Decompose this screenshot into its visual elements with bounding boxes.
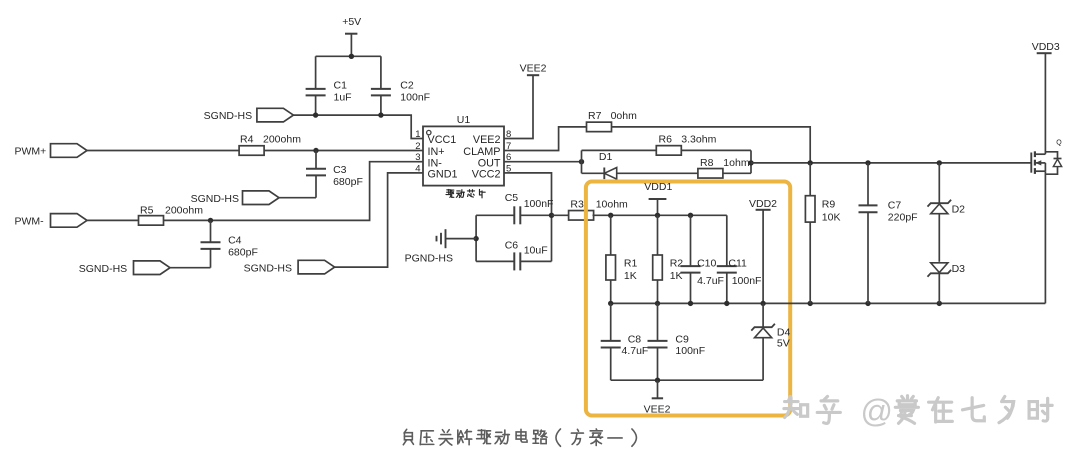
node rail/R1 bbox=[608, 213, 613, 218]
wire SGND to C4 bbox=[170, 267, 211, 269]
resistor R4 bbox=[239, 134, 301, 156]
node rail2/R9 bbox=[808, 301, 813, 306]
svg-text:R4: R4 bbox=[240, 134, 254, 146]
wire OUT bbox=[510, 161, 582, 163]
svg-text:4.7uF: 4.7uF bbox=[697, 275, 724, 287]
capacitor C10 bbox=[681, 215, 724, 303]
node PWM-/C4 junction bbox=[208, 218, 213, 223]
capacitor C6 bbox=[476, 239, 551, 270]
wire PWM+ to R4 bbox=[87, 150, 239, 152]
svg-text:C2: C2 bbox=[400, 79, 414, 91]
node D1 loop right exit bbox=[748, 160, 753, 165]
node C1 bottom bbox=[313, 112, 318, 117]
capacitor C11 bbox=[717, 215, 762, 303]
svg-text:100nF: 100nF bbox=[675, 345, 705, 357]
resistor R7 bbox=[587, 110, 638, 132]
resistor R5 bbox=[139, 205, 204, 226]
node PGND junction bbox=[473, 236, 478, 241]
node gate/R9 bbox=[808, 160, 813, 165]
node +5V rail junction bbox=[349, 54, 354, 59]
svg-text:100nF: 100nF bbox=[732, 275, 762, 287]
svg-text:0ohm: 0ohm bbox=[611, 110, 638, 122]
svg-text:SGND-HS: SGND-HS bbox=[204, 110, 252, 122]
svg-text:VCC2: VCC2 bbox=[472, 169, 501, 181]
svg-text:C1: C1 bbox=[334, 79, 348, 91]
svg-text:VEE2: VEE2 bbox=[473, 134, 501, 146]
resistor R6 bbox=[656, 133, 716, 155]
svg-text:R2: R2 bbox=[670, 258, 684, 270]
svg-text:4.7uF: 4.7uF bbox=[622, 345, 649, 357]
wire C5 to R3 bbox=[552, 214, 570, 216]
svg-text:200ohm: 200ohm bbox=[165, 205, 203, 217]
node rail2/R1 bbox=[608, 301, 613, 306]
svg-text:IN+: IN+ bbox=[428, 146, 445, 158]
connector SGND-HS mid bbox=[191, 191, 279, 205]
wire CLAMP to R7 bbox=[510, 127, 587, 151]
transistor Q MOSFET bbox=[1031, 139, 1062, 303]
wire PWM- to R5 bbox=[87, 219, 139, 221]
ground PGND-HS bbox=[405, 229, 477, 264]
node R4/C3 junction bbox=[313, 148, 318, 153]
svg-text:3.3ohm: 3.3ohm bbox=[681, 133, 716, 145]
node rail2/C11 bbox=[724, 301, 729, 306]
svg-text:D2: D2 bbox=[952, 203, 966, 215]
svg-text:R9: R9 bbox=[822, 199, 836, 211]
node rail/VDD1 bbox=[655, 213, 660, 218]
connector PWM+ bbox=[15, 144, 88, 158]
power +5V symbol bbox=[342, 16, 361, 56]
wire D1 loop left bbox=[581, 150, 583, 173]
svg-text:VDD1: VDD1 bbox=[644, 181, 672, 193]
svg-text:1uF: 1uF bbox=[334, 92, 352, 104]
svg-text:PWM-: PWM- bbox=[15, 216, 45, 228]
svg-text:680pF: 680pF bbox=[333, 176, 363, 188]
capacitor C4 bbox=[201, 220, 258, 267]
svg-text:R7: R7 bbox=[588, 110, 602, 122]
wire VDD1 rail bbox=[611, 214, 727, 216]
svg-text:C11: C11 bbox=[728, 257, 747, 269]
svg-text:R6: R6 bbox=[659, 133, 673, 145]
svg-text:R8: R8 bbox=[700, 157, 714, 169]
connector SGND-HS lower-left bbox=[79, 261, 170, 275]
op-amp U1 driver chip bbox=[415, 114, 511, 198]
svg-text:OUT: OUT bbox=[478, 157, 501, 169]
capacitor C2 bbox=[371, 56, 430, 115]
capacitor C5 bbox=[476, 192, 553, 225]
svg-text:GND1: GND1 bbox=[428, 169, 458, 181]
svg-text:VEE2: VEE2 bbox=[520, 62, 547, 74]
capacitor C1 bbox=[306, 56, 352, 115]
svg-text:VCC1: VCC1 bbox=[428, 134, 457, 146]
highlight box bbox=[586, 182, 790, 416]
svg-text:SGND-HS: SGND-HS bbox=[79, 263, 127, 275]
node rail2/D2 bbox=[937, 301, 942, 306]
svg-text:PGND-HS: PGND-HS bbox=[405, 253, 453, 265]
node D1 loop left bbox=[579, 159, 584, 164]
svg-text:5V: 5V bbox=[777, 337, 790, 349]
wire GND1 to SGND bbox=[335, 173, 418, 267]
wire SGND rail to VCC1 bbox=[293, 115, 417, 138]
svg-text:R3: R3 bbox=[570, 198, 584, 210]
svg-text:C4: C4 bbox=[228, 234, 242, 246]
wire R3 to rail bbox=[593, 214, 611, 216]
svg-text:1K: 1K bbox=[624, 270, 637, 282]
svg-text:IN-: IN- bbox=[428, 157, 443, 169]
svg-text:200ohm: 200ohm bbox=[263, 134, 301, 146]
node rail2/R2 bbox=[655, 301, 660, 306]
capacitor C7 bbox=[859, 163, 918, 304]
power VEE2 top bbox=[510, 62, 547, 138]
wire R4 to IN+ bbox=[264, 150, 417, 152]
svg-text:C8: C8 bbox=[628, 333, 642, 345]
svg-text:CLAMP: CLAMP bbox=[463, 146, 500, 158]
svg-text:220pF: 220pF bbox=[888, 211, 918, 223]
svg-text:100nF: 100nF bbox=[524, 198, 554, 210]
svg-text:C5: C5 bbox=[505, 192, 519, 204]
power VDD2 bbox=[749, 198, 777, 303]
wire C5C6 left bbox=[475, 215, 477, 261]
connector PWM- bbox=[15, 214, 88, 228]
diode D1 bbox=[599, 151, 617, 179]
svg-text:1: 1 bbox=[415, 129, 420, 140]
resistor R2 bbox=[653, 215, 684, 303]
wire VCC2 down bbox=[510, 173, 552, 215]
wire D1 loop right bbox=[750, 150, 752, 173]
power VDD3 bbox=[1032, 41, 1060, 154]
resistor R1 bbox=[606, 215, 638, 303]
power VEE2 bottom bbox=[644, 380, 671, 415]
svg-text:VDD3: VDD3 bbox=[1032, 41, 1060, 53]
connector SGND-HS top bbox=[204, 108, 294, 122]
svg-text:D1: D1 bbox=[599, 151, 613, 163]
svg-text:SGND-HS: SGND-HS bbox=[191, 193, 239, 205]
svg-text:U1: U1 bbox=[457, 114, 471, 126]
diode D3 zener bbox=[928, 263, 966, 304]
svg-text:C3: C3 bbox=[333, 164, 347, 176]
node rail2/C7 bbox=[865, 301, 870, 306]
wire source rail bbox=[611, 302, 1046, 304]
svg-text:R1: R1 bbox=[624, 258, 638, 270]
svg-text:R5: R5 bbox=[140, 205, 154, 217]
wire gate net bbox=[751, 162, 1031, 164]
svg-text:2: 2 bbox=[415, 141, 420, 152]
node rail2/C10 bbox=[688, 301, 693, 306]
node gate/C7 bbox=[865, 160, 870, 165]
watermark bbox=[784, 393, 1052, 429]
svg-text:SGND-HS: SGND-HS bbox=[244, 262, 292, 274]
wire D1 branch bbox=[582, 172, 752, 174]
capacitor C9 bbox=[648, 303, 706, 380]
resistor R9 bbox=[805, 163, 840, 304]
svg-text:VDD2: VDD2 bbox=[749, 198, 777, 210]
wire R7 to gate net bbox=[612, 127, 811, 163]
svg-text:C9: C9 bbox=[675, 333, 689, 345]
node rail/C10 bbox=[688, 213, 693, 218]
svg-text:10ohm: 10ohm bbox=[596, 198, 628, 210]
wire R6 branch bbox=[582, 149, 752, 151]
capacitor C3 bbox=[306, 151, 363, 198]
svg-text:3: 3 bbox=[415, 152, 420, 163]
resistor R8 bbox=[698, 157, 750, 178]
svg-text:4: 4 bbox=[415, 163, 420, 174]
wire VEE2 rail bbox=[611, 379, 763, 381]
wire C5C6 right bbox=[551, 215, 553, 261]
diode D2 zener bbox=[928, 163, 966, 262]
svg-text:D3: D3 bbox=[952, 263, 966, 275]
node C2 bottom bbox=[378, 112, 383, 117]
power VDD1 bbox=[644, 181, 672, 215]
svg-text:100nF: 100nF bbox=[400, 92, 430, 104]
title bbox=[403, 429, 636, 446]
svg-text:10uF: 10uF bbox=[524, 245, 548, 257]
capacitor C8 bbox=[601, 303, 649, 380]
wire +5V rail bbox=[316, 55, 381, 57]
svg-text:680pF: 680pF bbox=[228, 247, 258, 259]
svg-text:VEE2: VEE2 bbox=[644, 404, 671, 416]
wire SGND to C3 bbox=[279, 197, 316, 199]
connector SGND-HS lower-mid bbox=[244, 260, 335, 274]
svg-text:@: @ bbox=[860, 393, 892, 429]
resistor R3 bbox=[569, 198, 628, 220]
node VEE2/C9 bbox=[655, 378, 660, 383]
svg-text:Q: Q bbox=[1056, 139, 1062, 146]
svg-text:C6: C6 bbox=[505, 239, 519, 251]
svg-text:10K: 10K bbox=[822, 211, 841, 223]
svg-text:PWM+: PWM+ bbox=[15, 146, 47, 158]
svg-text:+5V: +5V bbox=[342, 16, 361, 28]
node rail2/D4 bbox=[760, 301, 765, 306]
svg-text:C7: C7 bbox=[888, 200, 902, 212]
svg-text:C10: C10 bbox=[697, 257, 716, 269]
svg-text:1ohm: 1ohm bbox=[723, 157, 750, 169]
node gate/D2 bbox=[937, 160, 942, 165]
node C5/R3 junction bbox=[549, 213, 554, 218]
diode D4 zener bbox=[751, 303, 790, 380]
wire R5 to IN- bbox=[164, 162, 418, 221]
